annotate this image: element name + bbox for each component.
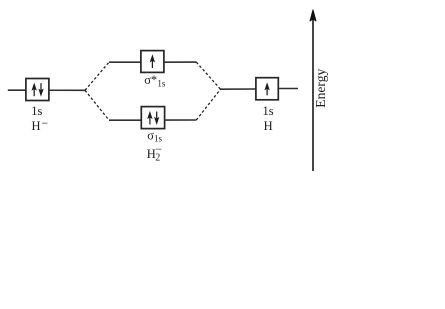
electron arrow up (sigma box) [147,111,152,125]
orbital box: sigma*1s (single electron) [141,51,164,73]
dashed connector: left fork up to sigma* level [85,62,109,90]
electron arrow down (left box) [38,83,43,97]
energy axis line [312,20,314,172]
wire: left 1s level stub left of box [8,89,26,91]
energy axis arrowhead [310,10,316,21]
electron arrow up (right box) [264,82,269,95]
wire: right fork to H 1s box [221,88,256,90]
orbital box: H- 1s (paired electrons) [26,79,49,101]
dashed connector: sigma* level to right fork [196,62,220,89]
svg-text:1s: 1s [263,104,274,118]
electron arrow up (sigma* box) [150,54,155,68]
dashed connector: sigma level to right fork [196,89,220,120]
orbital box: H 1s (single electron) [256,78,278,100]
wire: sigma level right segment [165,119,197,121]
wire: sigma* level left segment [109,61,141,63]
svg-text:Energy: Energy [313,68,328,107]
svg-text:H: H [264,119,273,133]
svg-text:−: − [155,142,162,156]
wire: sigma level left segment [109,119,141,121]
orbital box: sigma1s (paired electrons) [141,107,164,129]
wire: sigma* level right segment [164,61,196,63]
dashed connector: left fork down to sigma level [85,90,109,120]
electron arrow down (sigma box) [154,112,159,126]
electron arrow up (left box) [32,83,37,97]
wire: right 1s level stub right of box [278,88,298,90]
wire: left 1s level to fork vertex [49,89,85,91]
